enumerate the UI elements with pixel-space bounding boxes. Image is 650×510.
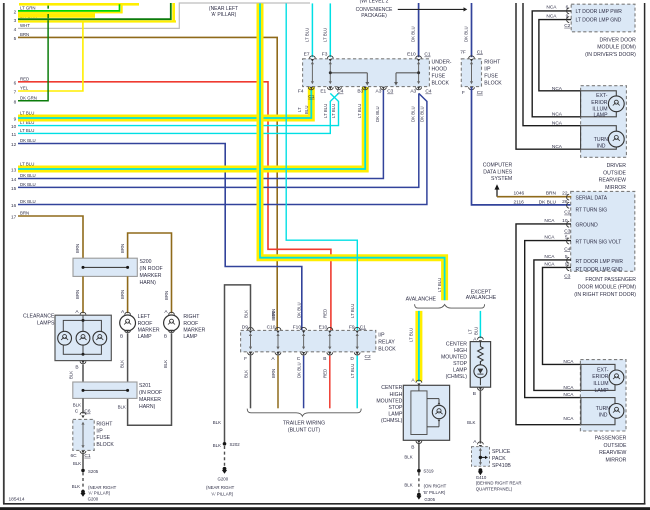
border frame bottom line <box>3 503 646 505</box>
svg-text:HARN): HARN) <box>139 404 156 410</box>
BLK right lamp routed around label <box>128 333 172 425</box>
svg-text:LT: LT <box>297 107 302 112</box>
driver exterior illum lamp box <box>581 91 617 117</box>
DDM caption <box>585 37 636 57</box>
svg-text:'B' PILLAR): 'B' PILLAR) <box>423 490 446 495</box>
BLK except to splice pack <box>467 391 480 444</box>
S201 label <box>139 383 162 410</box>
NCA labels passenger mirror <box>563 359 574 422</box>
FPDM connector C2 <box>564 210 570 216</box>
wire 16 DK BLU to fuse pin A3 via jog <box>18 93 427 204</box>
svg-text:C4: C4 <box>564 246 570 252</box>
svg-text:13: 13 <box>11 168 17 173</box>
svg-text:G305: G305 <box>424 497 435 502</box>
svg-text:REARVIEW: REARVIEW <box>599 450 626 456</box>
svg-text:BLOCK: BLOCK <box>484 80 502 86</box>
svg-text:DK BLU: DK BLU <box>464 26 469 42</box>
svg-text:12: 12 <box>11 142 17 147</box>
svg-text:DK BLU: DK BLU <box>20 182 36 187</box>
svg-text:DRIVER: DRIVER <box>607 163 627 169</box>
svg-text:1046: 1046 <box>514 191 525 197</box>
clearance lamp bulb left <box>58 331 72 345</box>
wire label DK BLU at C4 jog <box>420 106 425 122</box>
FPDM pin labels row1 <box>576 195 608 213</box>
svg-text:14: 14 <box>11 177 17 182</box>
wire 12 DK BLU to relay block pin F10 <box>18 144 302 331</box>
svg-text:SPLICE: SPLICE <box>492 449 511 455</box>
svg-text:PACK: PACK <box>492 456 506 462</box>
left roof marker lamp <box>120 309 136 339</box>
label EXCEPT AVALANCHE <box>466 289 497 301</box>
svg-text:10: 10 <box>11 124 17 129</box>
CHMSL avalanche caption <box>376 385 403 424</box>
selector brace <box>415 304 485 308</box>
BRN S200 to left roof lamp <box>120 276 128 313</box>
svg-text:BLK: BLK <box>404 455 412 460</box>
passenger exterior illum lamp <box>609 370 624 385</box>
svg-text:LAMPS: LAMPS <box>37 320 55 326</box>
wire 10 row number and color label <box>11 120 34 129</box>
svg-text:NCA: NCA <box>552 112 563 118</box>
svg-text:NCA: NCA <box>544 235 555 241</box>
wire label DK BLU at A3 <box>375 106 380 122</box>
svg-text:DK BLU: DK BLU <box>539 200 557 206</box>
highlighted LT BLU trunk band <box>260 3 445 300</box>
fuse internal link F3-E1 <box>329 61 332 84</box>
svg-text:BLK: BLK <box>467 420 475 425</box>
svg-text:(BEHIND RIGHT REAR: (BEHIND RIGHT REAR <box>476 481 522 486</box>
wire 14 row number and color label <box>11 173 36 182</box>
connector C C6 <box>75 409 91 419</box>
FPDM connector C3 <box>564 229 570 235</box>
CHMSL avalanche pin B <box>411 441 422 451</box>
label tick wire 2 <box>47 6 49 9</box>
wire 6 RED to relay block pin E10 <box>18 82 331 330</box>
svg-text:DK BLU: DK BLU <box>296 302 301 318</box>
right roof marker lamp label <box>183 314 205 340</box>
svg-text:BLK: BLK <box>404 482 412 487</box>
right IP fuse block body bottom <box>73 419 94 450</box>
svg-text:(ON RIGHT: (ON RIGHT <box>424 483 447 488</box>
svg-text:C4: C4 <box>425 89 431 95</box>
svg-text:BLU: BLU <box>304 106 309 114</box>
svg-text:C1: C1 <box>360 324 366 330</box>
svg-text:BLK: BLK <box>243 370 248 378</box>
splice pack label <box>492 449 511 469</box>
DDM pin 9 <box>546 13 569 22</box>
svg-text:11: 11 <box>11 132 16 137</box>
ground G200 <box>80 485 116 502</box>
svg-text:F4: F4 <box>298 89 304 95</box>
svg-text:I/P: I/P <box>96 428 103 434</box>
svg-text:4: 4 <box>14 27 17 32</box>
svg-text:B3: B3 <box>357 89 363 95</box>
wire 14 DK BLU to fuse pin A3 <box>18 90 383 179</box>
svg-text:LT BLU: LT BLU <box>305 28 310 42</box>
svg-text:2116: 2116 <box>514 200 525 206</box>
svg-text:5: 5 <box>14 36 17 41</box>
wire 8 DK GRN up to wire 3 <box>18 20 48 101</box>
wire 16 row number and color label <box>11 199 36 208</box>
CHMSL except LED lamp <box>474 362 487 386</box>
passenger exterior illum caption <box>592 367 609 393</box>
wire label RED above relay <box>323 309 328 318</box>
connector 6C C1 <box>70 451 90 459</box>
svg-text:LAMP: LAMP <box>453 367 468 373</box>
svg-text:A3: A3 <box>376 89 382 95</box>
svg-text:MODULE (DDM): MODULE (DDM) <box>597 45 636 51</box>
underhood fuse block body <box>303 59 430 87</box>
svg-text:PACKAGE): PACKAGE) <box>361 13 387 19</box>
CHMSL except pin A <box>473 337 483 343</box>
right IP fuse block label top <box>484 60 502 87</box>
wire 11 LT BLU to fuse pin C4 <box>18 93 339 133</box>
wire label BLK above relay <box>243 310 248 318</box>
svg-text:'A' PILLAR): 'A' PILLAR) <box>211 12 237 18</box>
CHMSL avalanche element <box>411 385 439 434</box>
svg-text:BLK: BLK <box>118 405 126 410</box>
splice pack pin A <box>473 439 483 448</box>
svg-text:(IN ROOF: (IN ROOF <box>140 266 163 272</box>
clearance lamps body <box>55 315 111 360</box>
LT BLU wire from top to relay pin F9 <box>286 3 357 330</box>
passenger exterior illum lamp box <box>581 364 615 390</box>
wire 11 row number and color label <box>11 128 34 137</box>
NCA wire FPDM ground to passenger turn <box>516 224 581 425</box>
right IP fuse block bottom internal <box>81 422 84 449</box>
svg-text:HARN): HARN) <box>140 280 157 286</box>
svg-text:IND: IND <box>599 413 608 419</box>
LT BLU label avalanche branch <box>408 328 413 342</box>
trailer wire LT BLU blunt cut <box>350 356 357 409</box>
relay bottom pin A <box>271 352 281 362</box>
DDM connector C2 <box>564 23 570 29</box>
svg-text:MIRROR: MIRROR <box>605 185 626 191</box>
svg-text:RT DOOR LMP GND: RT DOOR LMP GND <box>576 267 623 273</box>
svg-text:NCA: NCA <box>544 218 555 224</box>
fuse pin E1 <box>320 87 343 95</box>
wire 2 row number and color label <box>14 5 36 14</box>
svg-text:BRN: BRN <box>546 191 557 197</box>
BLK dashed to G200 right <box>224 446 226 467</box>
svg-text:S205: S205 <box>88 469 99 474</box>
passenger turn ind caption <box>596 406 611 419</box>
BLK dashed to G200 <box>72 472 83 489</box>
driver mirror caption <box>599 163 627 191</box>
DDM pin labels <box>576 9 623 24</box>
DK BLU wire right IP to FPDM pin 26 <box>472 87 572 205</box>
svg-text:BLK: BLK <box>163 360 168 368</box>
relay internal element <box>356 333 359 350</box>
wire label LT BLU at C4 <box>331 104 336 118</box>
wire label LT BLU at E1 <box>323 104 328 118</box>
svg-text:MOUNTED: MOUNTED <box>376 398 402 404</box>
svg-text:AVALANCHE: AVALANCHE <box>406 296 437 302</box>
NCA labels driver mirror <box>552 86 563 150</box>
LT BLU wire to fuse pin E7 <box>305 3 313 57</box>
svg-text:LAMP: LAMP <box>594 112 609 118</box>
svg-text:FUSE: FUSE <box>484 74 498 80</box>
relay internal element <box>328 333 331 350</box>
svg-text:LT BLU: LT BLU <box>322 28 327 42</box>
CHMSL avalanche lamp <box>432 402 445 422</box>
wire label LT BLU at B3 <box>357 104 362 118</box>
trailer wiring caption <box>283 420 325 433</box>
svg-text:OUTSIDE: OUTSIDE <box>604 443 627 449</box>
fuse pin F4 <box>298 87 315 100</box>
svg-text:CENTER: CENTER <box>381 385 402 391</box>
svg-text:RIGHT: RIGHT <box>183 314 200 320</box>
DK BLU wire to right IP fuse pin 7F <box>464 3 472 57</box>
svg-text:C3: C3 <box>564 229 570 235</box>
wire 5 row number and color label <box>14 32 30 41</box>
svg-text:FRONT PASSENGER: FRONT PASSENGER <box>585 277 636 283</box>
svg-text:RIGHT: RIGHT <box>96 421 113 427</box>
svg-text:C2: C2 <box>365 354 371 360</box>
svg-text:7: 7 <box>14 90 17 95</box>
relay pin F9 <box>349 324 360 333</box>
svg-text:S200: S200 <box>140 259 152 265</box>
FPDM ground pin <box>544 218 598 229</box>
svg-text:LT BLU: LT BLU <box>408 328 413 342</box>
clearance lamp bulb right <box>93 331 107 345</box>
svg-text:BLOCK: BLOCK <box>432 80 450 86</box>
label tick wire 3 <box>47 14 49 18</box>
svg-text:BLK: BLK <box>73 403 81 408</box>
svg-text:B: B <box>473 391 476 397</box>
svg-text:RT DOOR LMP PWR: RT DOOR LMP PWR <box>576 259 624 265</box>
wire 13 highlight band <box>18 87 365 169</box>
svg-text:UNDER-: UNDER- <box>432 60 452 66</box>
wire label LT BLU at F4 <box>297 106 309 114</box>
relay bottom pin F <box>244 352 253 362</box>
svg-text:BLK: BLK <box>243 310 248 318</box>
svg-text:6: 6 <box>14 80 17 85</box>
svg-text:BLU: BLU <box>474 327 479 335</box>
IP relay block body <box>241 330 376 351</box>
svg-text:CLEARANCE: CLEARANCE <box>23 314 55 320</box>
relay pin C10 <box>267 324 281 333</box>
driver turn ind box <box>581 126 617 150</box>
svg-text:LT BLU: LT BLU <box>323 104 328 118</box>
svg-text:BRN: BRN <box>271 309 276 318</box>
trailer wiring brace <box>247 409 361 417</box>
svg-text:NCA: NCA <box>544 254 555 260</box>
svg-text:C1: C1 <box>477 49 483 55</box>
svg-text:QUARTERPANEL): QUARTERPANEL) <box>476 486 513 491</box>
wire 9 LT BLU to underhood fuse block pin F4 <box>18 90 311 118</box>
NCA trunk wire to driver turn signal A <box>523 3 581 126</box>
wire 6 row number and color label <box>14 76 30 85</box>
relay pin F10 <box>293 324 307 333</box>
callout arrow to DK BLU wire <box>398 7 468 11</box>
driver exterior illum lamp caption <box>591 93 608 118</box>
label W LEVEL 2 CONVENIENCE PACKAGE <box>356 0 393 19</box>
svg-text:BRN: BRN <box>20 32 29 37</box>
clearance lamps pin B <box>75 361 86 371</box>
svg-text:DRIVER DOOR: DRIVER DOOR <box>600 37 637 43</box>
svg-text:'A' PILLAR): 'A' PILLAR) <box>211 492 234 497</box>
svg-text:F3: F3 <box>322 52 328 58</box>
splice pack SP410B body <box>472 447 490 467</box>
svg-text:(IN RIGHT FRONT DOOR): (IN RIGHT FRONT DOOR) <box>574 292 636 298</box>
svg-text:RED: RED <box>323 309 328 318</box>
BRN serial data wire <box>497 196 571 198</box>
svg-text:B: B <box>120 333 123 339</box>
S200 internal bus <box>82 266 130 269</box>
svg-text:BRN: BRN <box>20 211 29 216</box>
wire 17 row number and color label <box>11 211 29 220</box>
label BRN wire17 <box>75 244 80 253</box>
CHMSL avalanche body <box>403 385 449 440</box>
svg-text:LEFT: LEFT <box>138 314 151 320</box>
fuse pin E10 <box>407 52 421 62</box>
svg-text:17: 17 <box>11 215 17 220</box>
svg-text:RT TURN SIG: RT TURN SIG <box>576 207 608 213</box>
svg-text:E7: E7 <box>304 52 310 58</box>
svg-text:G200: G200 <box>218 476 229 481</box>
svg-text:LAMP: LAMP <box>595 388 610 394</box>
relay connector C2 <box>365 354 371 360</box>
LT BLU label avalanche stub <box>437 278 442 292</box>
wire label DK BLU above relay <box>296 302 301 318</box>
svg-text:3: 3 <box>14 18 17 23</box>
svg-text:BLK: BLK <box>213 443 221 448</box>
splice S319 <box>417 469 434 474</box>
svg-text:(NEAR LEFT: (NEAR LEFT <box>209 6 238 12</box>
svg-text:(CHMSL): (CHMSL) <box>446 374 468 380</box>
BRN vertical label above relay <box>271 311 276 320</box>
svg-text:NCA: NCA <box>563 385 574 391</box>
svg-text:LT BLU: LT BLU <box>437 278 442 292</box>
svg-text:ERIOR: ERIOR <box>591 100 608 106</box>
right IP fuse block body top <box>461 59 481 87</box>
svg-text:LT BLU: LT BLU <box>357 104 362 118</box>
fuse pin C4 slot <box>336 87 342 90</box>
fuse connector C1 top <box>424 52 430 58</box>
right IP internal link <box>470 61 473 84</box>
wire 8 row number and color label <box>14 95 37 104</box>
svg-text:BLK: BLK <box>213 420 221 425</box>
fuse pin F3 <box>322 52 333 62</box>
svg-text:HIGH: HIGH <box>454 348 467 354</box>
relay internal element <box>249 333 252 350</box>
FPDM turn sig volt pin <box>544 235 621 246</box>
diagram number <box>9 496 25 502</box>
svg-text:MARKER: MARKER <box>183 327 205 333</box>
wire 3 row number and color label <box>14 14 37 23</box>
svg-text:AVALANCHE: AVALANCHE <box>466 295 497 301</box>
BLK left lamp to S201 <box>119 333 127 382</box>
svg-text:E1: E1 <box>320 89 326 95</box>
svg-text:LT: LT <box>468 329 473 334</box>
LT BLU label except branch <box>468 327 479 335</box>
right IP pin F <box>462 87 483 96</box>
border frame bottom bar <box>0 507 650 510</box>
svg-text:WHT: WHT <box>20 23 30 28</box>
CHMSL except resistor <box>478 342 484 364</box>
svg-text:DK BLU: DK BLU <box>375 106 380 122</box>
svg-text:LT BLU: LT BLU <box>350 304 355 318</box>
svg-text:SP410B: SP410B <box>492 463 511 469</box>
svg-text:OUTSIDE: OUTSIDE <box>603 170 626 176</box>
ground G410 <box>476 468 522 491</box>
svg-text:BRN: BRN <box>164 291 169 300</box>
driver turn ind caption <box>594 137 609 150</box>
wire 2 LT GRN to top connector <box>18 4 120 11</box>
svg-text:S202: S202 <box>230 442 241 447</box>
svg-text:LT BLU: LT BLU <box>20 128 34 133</box>
wire 3 highlight bands <box>18 3 176 23</box>
svg-text:BLK: BLK <box>68 371 73 379</box>
FPDM lamp pwr pin <box>544 254 623 265</box>
svg-text:DATA LINES: DATA LINES <box>483 169 513 175</box>
relay bottom pin D <box>350 352 360 362</box>
right roof marker lamp <box>164 309 180 339</box>
svg-text:BLK: BLK <box>119 360 124 368</box>
wire 4 WHT to top edge <box>18 3 310 28</box>
BLK to S205 <box>73 454 83 469</box>
wire 12 row number and color label <box>11 138 36 147</box>
svg-text:NCA: NCA <box>563 416 574 422</box>
svg-text:7F: 7F <box>460 49 466 55</box>
svg-text:ERIOR: ERIOR <box>592 374 609 380</box>
svg-text:STOP: STOP <box>388 405 402 411</box>
NCA wire DDM pin 6 to exterior lamp <box>532 11 580 117</box>
svg-text:LT GRN: LT GRN <box>20 5 36 10</box>
LT BLU avalanche branch wire <box>418 311 420 382</box>
right IP pin 7F <box>460 49 483 61</box>
svg-text:185414: 185414 <box>9 496 25 502</box>
LT BLU wire to fuse pin F3 <box>322 3 330 57</box>
clearance lamps center wire <box>82 315 85 356</box>
svg-text:TRAILER WIRING: TRAILER WIRING <box>283 420 325 426</box>
svg-text:LT BLU: LT BLU <box>331 104 336 118</box>
svg-text:ILLUM: ILLUM <box>593 381 608 387</box>
fuse pin A3 second <box>410 87 432 95</box>
NCA wire FPDM lamp gnd to passenger ext lamp <box>543 267 581 364</box>
svg-text:MARKER: MARKER <box>140 273 162 279</box>
relay connector C1 <box>360 324 366 330</box>
svg-text:CONVENIENCE: CONVENIENCE <box>356 7 393 13</box>
svg-text:8: 8 <box>14 99 17 104</box>
NCA wire FPDM turn sig volt to passenger turn <box>525 241 581 398</box>
wire 4 row number and color label <box>14 23 31 32</box>
trailer wire RED blunt cut <box>323 356 330 409</box>
splice S205 <box>81 469 99 474</box>
svg-text:DK BLU: DK BLU <box>411 106 416 122</box>
fuse internal branch to B3 <box>329 71 369 85</box>
BRN bridge to right roof lamp <box>128 233 172 313</box>
svg-text:S201: S201 <box>139 383 151 389</box>
clearance lamps pin A <box>75 309 86 318</box>
S200 label <box>140 259 163 286</box>
svg-text:LAMP: LAMP <box>388 412 403 418</box>
svg-text:F9: F9 <box>349 324 355 330</box>
svg-text:9: 9 <box>14 117 17 122</box>
wire 7 YEL up to wire 3 band <box>18 22 83 92</box>
relay internal element <box>302 333 305 350</box>
relay internal element <box>276 333 279 350</box>
svg-text:LT DOOR LMP GND: LT DOOR LMP GND <box>576 18 622 24</box>
wire 7 row number and color label <box>14 86 29 95</box>
highlighted LT BLU avalanche branch band <box>415 311 422 382</box>
svg-text:GROUND: GROUND <box>576 223 599 229</box>
FPDM lamp gnd pin <box>544 261 622 273</box>
svg-text:RT TURN SIG VOLT: RT TURN SIG VOLT <box>576 239 622 245</box>
svg-text:NCA: NCA <box>563 359 574 365</box>
driver turn ind lamp <box>608 131 624 147</box>
